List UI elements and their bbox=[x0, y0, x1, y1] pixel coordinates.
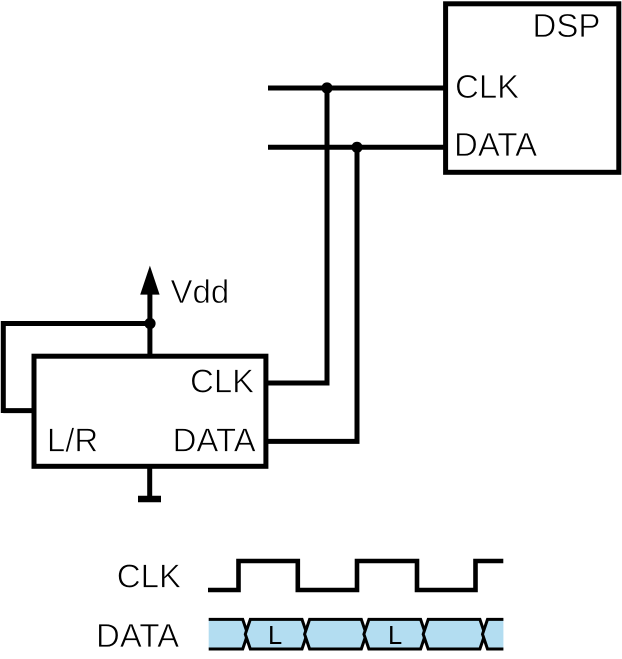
wire DATA net horizontal bbox=[268, 145, 446, 150]
wire L/R tie-high horizontal bottom bbox=[3, 408, 36, 413]
svg-text:CLK: CLK bbox=[190, 363, 254, 400]
DSP box U1 bbox=[446, 4, 619, 173]
junction node Vdd bbox=[144, 318, 155, 329]
timing CLK waveform bbox=[208, 561, 503, 590]
ground stem wire bbox=[147, 464, 152, 497]
svg-text:L: L bbox=[388, 622, 402, 650]
svg-text:DATA: DATA bbox=[454, 126, 537, 163]
svg-text:DSP: DSP bbox=[533, 7, 601, 44]
Vdd arrowhead bbox=[140, 266, 159, 295]
junction node DATA bbox=[351, 142, 362, 153]
wire codec CLK pin bbox=[264, 381, 330, 386]
svg-text:Vdd: Vdd bbox=[171, 273, 230, 310]
codec box U2 bbox=[34, 356, 266, 466]
data bus segment 1 bbox=[209, 619, 248, 649]
data bus segment 2 (L) bbox=[245, 619, 307, 649]
svg-text:CLK: CLK bbox=[117, 558, 181, 595]
ground bar bbox=[138, 496, 161, 503]
wire codec DATA pin bbox=[264, 439, 360, 444]
junction node CLK bbox=[321, 82, 332, 93]
wire DATA net vertical bbox=[355, 147, 360, 441]
Vdd supply stem wire bbox=[147, 287, 152, 357]
data bus segment 3 bbox=[305, 619, 367, 649]
data bus segment 6 bbox=[483, 619, 504, 649]
wire L/R tie-high horizontal top bbox=[3, 321, 150, 326]
data bus segment 4 (L) bbox=[364, 619, 426, 649]
wire CLK net horizontal bbox=[268, 86, 446, 91]
data bus segment 5 bbox=[423, 619, 485, 649]
svg-text:L/R: L/R bbox=[47, 422, 98, 459]
wire L/R tie-high vertical bbox=[1, 321, 6, 413]
svg-text:CLK: CLK bbox=[455, 68, 519, 105]
svg-text:L: L bbox=[268, 622, 282, 650]
svg-text:DATA: DATA bbox=[96, 617, 179, 654]
wire CLK net vertical bbox=[325, 88, 330, 383]
svg-text:DATA: DATA bbox=[173, 422, 256, 459]
